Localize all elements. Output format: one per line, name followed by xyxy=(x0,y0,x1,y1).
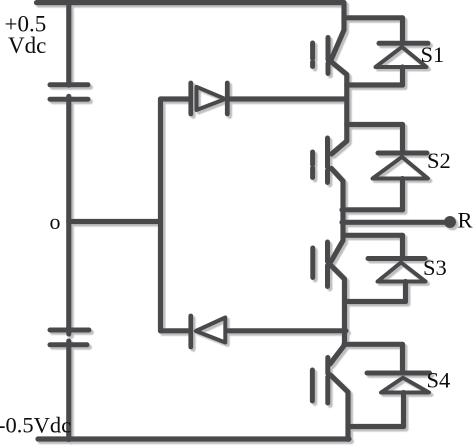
svg-text:o: o xyxy=(50,209,61,234)
svg-text:S3: S3 xyxy=(423,255,447,280)
svg-text:S2: S2 xyxy=(427,148,451,173)
svg-text:S4: S4 xyxy=(427,368,451,393)
svg-text:R: R xyxy=(458,208,473,233)
svg-text:-0.5Vdc: -0.5Vdc xyxy=(0,413,71,438)
svg-text:S1: S1 xyxy=(421,42,445,67)
svg-text:Vdc: Vdc xyxy=(8,33,46,58)
